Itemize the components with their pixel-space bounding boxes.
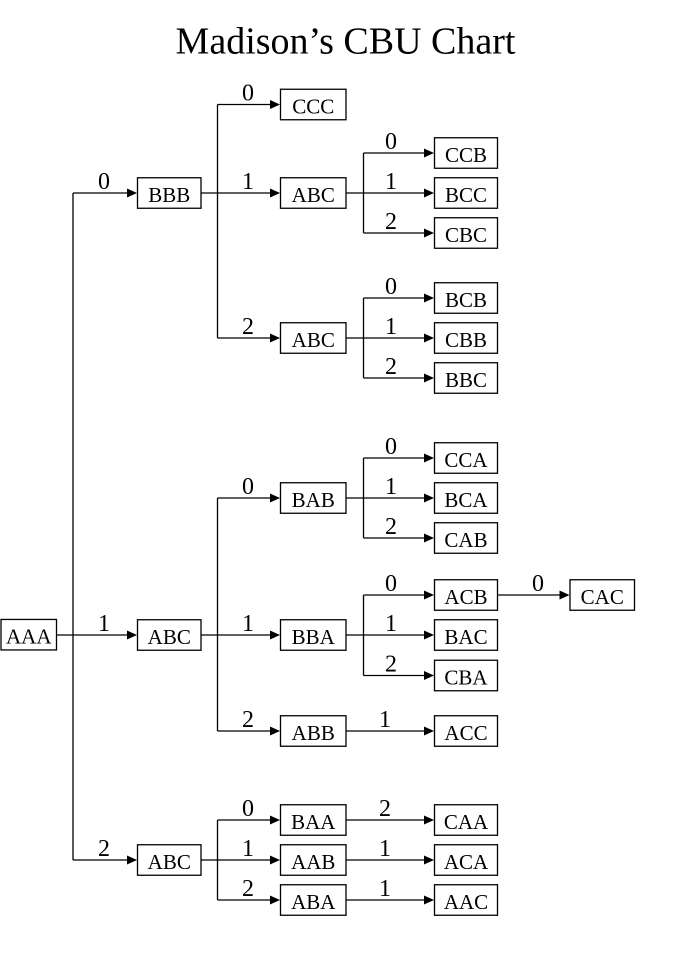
svg-text:BAB: BAB — [292, 488, 335, 512]
node CCA — [435, 443, 498, 474]
wire branch 0: trunk2 to BAB — [218, 494, 281, 503]
svg-text:BBC: BBC — [445, 368, 487, 392]
svg-text:ABC: ABC — [148, 625, 191, 649]
node BAC — [435, 620, 498, 651]
wire branch 1: trunk2 to BBA — [218, 631, 281, 640]
node CAA — [435, 805, 498, 836]
wire branch 0: trunk2 to BAA — [218, 816, 281, 825]
wire ACB to CAC with arrow — [498, 591, 570, 600]
svg-text:1: 1 — [379, 836, 391, 862]
svg-text:0: 0 — [385, 434, 397, 460]
wire trunk3b — [363, 298, 365, 378]
svg-text:BCA: BCA — [444, 488, 488, 512]
svg-text:1: 1 — [385, 474, 397, 500]
wire trunk3d — [363, 595, 365, 676]
svg-text:1: 1 — [379, 876, 391, 902]
svg-text:AAA: AAA — [6, 625, 52, 649]
svg-text:1: 1 — [385, 611, 397, 637]
wire branch 2: trunk3d to CBA — [364, 671, 435, 680]
svg-text:BBA: BBA — [292, 625, 336, 649]
wire ABC2nd-bot stub to trunk2 bottom group — [201, 859, 218, 861]
svg-text:2: 2 — [242, 314, 254, 340]
node BBB — [138, 178, 202, 209]
svg-text:1: 1 — [379, 707, 391, 733]
svg-text:2: 2 — [385, 652, 397, 678]
wire branch 0: trunk2 to CCC — [218, 100, 281, 109]
node CCB — [435, 138, 498, 169]
wire trunk3a — [363, 153, 365, 233]
wire branch 0: trunk3c to CCA — [364, 454, 435, 463]
svg-text:CCA: CCA — [444, 448, 488, 472]
node BBA — [281, 620, 347, 651]
node ACC — [435, 716, 498, 747]
node BBC — [435, 363, 498, 394]
wire branch 1: trunk3a to BCC — [364, 189, 435, 198]
wire branch 2: trunk2 to ABC3rd-2 — [218, 334, 281, 343]
node CCC — [281, 89, 347, 120]
wire branch 2: trunk1 to ABC (level2 bot) — [73, 856, 137, 865]
wire trunk2 of middle group — [217, 498, 219, 731]
wire AAA to trunk1 and arrow into ABC (level2 mid) — [57, 631, 138, 640]
node BCC — [435, 178, 498, 209]
wire branch 2: trunk3c to CAB — [364, 534, 435, 543]
wire BBA stub to trunk3d — [346, 634, 364, 636]
svg-text:0: 0 — [98, 169, 110, 195]
wire branch 2: trunk2 to ABB — [218, 727, 281, 736]
svg-text:CBA: CBA — [444, 666, 488, 690]
node CAC — [570, 580, 635, 611]
node ACA — [435, 845, 498, 876]
wire branch 2: trunk3a to CBC — [364, 229, 435, 238]
wire branch 1: trunk2 to AAB — [218, 856, 281, 865]
wire branch 0: trunk3b to BCB — [364, 294, 435, 303]
svg-text:BAA: BAA — [291, 810, 336, 834]
node AAB — [281, 845, 347, 876]
node ABC3rd-2 — [281, 323, 347, 354]
node BAB — [281, 483, 347, 514]
wire BAA to CAA with arrow — [346, 816, 434, 825]
svg-text:CCC: CCC — [292, 95, 334, 119]
svg-text:2: 2 — [385, 209, 397, 235]
svg-text:1: 1 — [242, 836, 254, 862]
wire BBB to ABC3rd-1 with arrow — [201, 189, 280, 198]
node CBA — [435, 660, 498, 691]
svg-text:BBB: BBB — [148, 183, 190, 207]
svg-text:CBC: CBC — [445, 223, 487, 247]
node ABC2nd-mid — [138, 620, 202, 651]
svg-text:1: 1 — [242, 611, 254, 637]
svg-text:0: 0 — [385, 129, 397, 155]
svg-text:ABA: ABA — [291, 890, 336, 914]
svg-text:2: 2 — [242, 876, 254, 902]
wire branch 1: trunk3b to CBB — [364, 334, 435, 343]
wire branch 1: trunk3d to BAC — [364, 631, 435, 640]
svg-text:ABB: ABB — [292, 721, 335, 745]
svg-text:CCB: CCB — [445, 143, 487, 167]
svg-text:0: 0 — [242, 81, 254, 107]
svg-text:1: 1 — [98, 611, 110, 637]
wire branch 0: trunk1 to BBB — [73, 189, 137, 198]
node BCB — [435, 283, 498, 314]
svg-text:ABC: ABC — [292, 183, 335, 207]
node BCA — [435, 483, 498, 514]
wire ABC2nd-mid stub to trunk2 middle group — [201, 634, 218, 636]
node ABB — [281, 716, 347, 747]
wire trunk2 of bottom group — [217, 820, 219, 900]
svg-text:2: 2 — [379, 796, 391, 822]
node BAA — [281, 805, 347, 836]
node AAC — [435, 885, 498, 916]
svg-text:1: 1 — [242, 169, 254, 195]
wire ABC3rd-2 stub to trunk3b — [346, 337, 364, 339]
svg-text:ACB: ACB — [444, 585, 487, 609]
wire branch 2: trunk3b to BBC — [364, 374, 435, 383]
svg-text:CAA: CAA — [444, 810, 489, 834]
node CAB — [435, 523, 498, 554]
wire trunk1 vertical — [72, 193, 74, 860]
svg-text:0: 0 — [532, 571, 544, 597]
node ACB — [435, 580, 498, 611]
node AAA — [1, 619, 57, 650]
svg-text:2: 2 — [242, 707, 254, 733]
svg-text:AAB: AAB — [291, 850, 335, 874]
svg-text:1: 1 — [385, 169, 397, 195]
svg-text:ABC: ABC — [148, 850, 191, 874]
svg-text:ACC: ACC — [444, 721, 487, 745]
svg-text:ABC: ABC — [292, 328, 335, 352]
svg-text:0: 0 — [242, 796, 254, 822]
svg-text:2: 2 — [98, 836, 110, 862]
wire branch 0: trunk3d to ACB — [364, 591, 435, 600]
svg-text:AAC: AAC — [444, 890, 488, 914]
svg-text:2: 2 — [385, 514, 397, 540]
svg-text:0: 0 — [385, 571, 397, 597]
svg-text:ACA: ACA — [444, 850, 489, 874]
svg-text:2: 2 — [385, 354, 397, 380]
node CBC — [435, 218, 498, 249]
svg-text:BAC: BAC — [444, 625, 487, 649]
wire trunk3c — [363, 458, 365, 538]
wire branch 1: trunk3c to BCA — [364, 494, 435, 503]
svg-text:0: 0 — [242, 474, 254, 500]
svg-text:CAC: CAC — [581, 585, 624, 609]
wire branch 2: trunk2 to ABA — [218, 896, 281, 905]
node ABA — [281, 885, 347, 916]
node ABC3rd-1 — [281, 178, 347, 209]
svg-text:CBB: CBB — [445, 328, 487, 352]
wire AAB to ACA with arrow — [346, 856, 434, 865]
node CBB — [435, 323, 498, 354]
svg-text:BCC: BCC — [445, 183, 487, 207]
svg-text:BCB: BCB — [445, 288, 487, 312]
svg-text:Madison’s CBU Chart: Madison’s CBU Chart — [176, 21, 516, 63]
svg-text:CAB: CAB — [444, 528, 487, 552]
svg-text:0: 0 — [385, 274, 397, 300]
svg-text:1: 1 — [385, 314, 397, 340]
wire ABA to AAC with arrow — [346, 896, 434, 905]
wire BAB stub to trunk3c — [346, 497, 364, 499]
node ABC2nd-bot — [138, 845, 202, 876]
wire ABB to ACC with arrow — [346, 727, 434, 736]
wire ABC3rd-1 stub to trunk3a — [346, 192, 364, 194]
wire trunk2 of BBB group — [217, 105, 219, 339]
wire branch 0: trunk3a to CCB — [364, 149, 435, 158]
